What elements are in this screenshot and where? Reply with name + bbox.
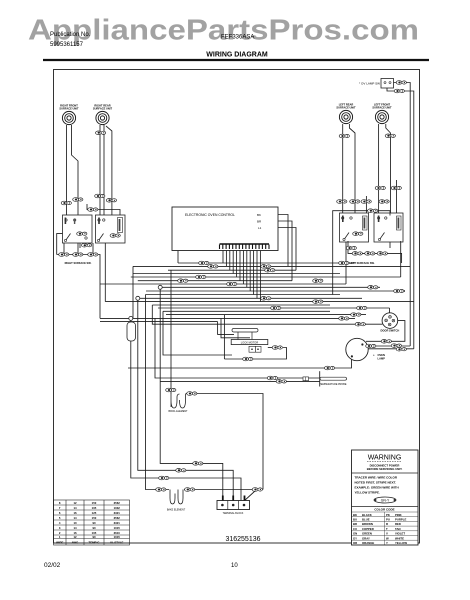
- svg-text:3321: 3321: [114, 521, 121, 525]
- svg-text:TEMPERATURE PROBE: TEMPERATURE PROBE: [320, 383, 347, 386]
- svg-text:T: T: [386, 527, 388, 531]
- wire: band b15: [163, 310, 330, 312]
- svg-text:GRAY: GRAY: [362, 536, 370, 540]
- wire: band b9: [146, 290, 405, 292]
- svg-text:105: 105: [92, 506, 97, 510]
- svg-text:Publication No.: Publication No.: [50, 32, 91, 38]
- connector J61 at (161,489.5): [156, 488, 166, 492]
- svg-text:FEF336ASA: FEF336ASA: [221, 35, 254, 41]
- wire: lock area feed 1: [218, 322, 234, 335]
- svg-text:VIOLET: VIOLET: [395, 532, 405, 536]
- wire: drop b2 to lower bus: [132, 266, 134, 318]
- wire: left long drop 2 (to terminal N): [138, 298, 233, 500]
- svg-text:3562: 3562: [114, 501, 121, 505]
- svg-text:W: W: [386, 536, 389, 540]
- connector J43 at (362,308): [357, 306, 367, 310]
- connector J18 at (355,201.5): [350, 200, 360, 204]
- svg-text:BAKE ELEMENT: BAKE ELEMENT: [167, 509, 186, 512]
- svg-text:BROIL ELEMENT: BROIL ELEMENT: [168, 410, 188, 413]
- wire: right switch 2 main drop: [104, 243, 106, 302]
- wire: left switch 2 drop a: [389, 242, 391, 248]
- svg-text:SURFACE UNIT: SURFACE UNIT: [372, 106, 392, 110]
- connector J59 at (181,470.3): [176, 469, 186, 473]
- connector J34 at (201,277): [196, 275, 206, 279]
- svg-text:PURPLE: PURPLE: [395, 518, 406, 522]
- svg-text:1032: 1032: [114, 506, 121, 510]
- connector J37 at (399,291): [394, 289, 404, 293]
- svg-text:AWG: AWG: [72, 541, 79, 545]
- wire: feed into terminal block right cell: [244, 491, 256, 502]
- svg-text:3562: 3562: [114, 516, 121, 520]
- wire: right rear surface unit left lead: [99, 125, 101, 215]
- wire: left long drop 3 (to terminal R): [131, 318, 241, 501]
- junction node B: [129, 316, 133, 320]
- connector J40 at (266,298.3): [261, 297, 271, 301]
- right surface switch 2: [96, 215, 126, 243]
- svg-text:14: 14: [73, 526, 77, 530]
- wire: left rear surface unit right lead: [349, 124, 355, 213]
- wire: lamp right conn lower: [366, 348, 414, 350]
- svg-text:LAMP: LAMP: [378, 356, 386, 360]
- svg-text:16: 16: [73, 511, 77, 515]
- svg-text:150: 150: [92, 516, 97, 520]
- terminal block TB1: [217, 496, 250, 516]
- wire: left long drop 1 (to terminal L): [160, 287, 223, 500]
- svg-text:WIRING DIAGRAM: WIRING DIAGRAM: [206, 52, 268, 59]
- svg-text:COLOR CODE: COLOR CODE: [374, 508, 394, 512]
- electronic oven control U1: [172, 207, 278, 251]
- connector J6 at (115.4,235.5): [110, 234, 120, 238]
- surface unit coil right front: [59, 104, 79, 125]
- wire: EOC terminal L1 lead: [266, 228, 296, 271]
- svg-text:* OV LAMP SW: * OV LAMP SW: [359, 82, 380, 86]
- svg-text:TEMP°C: TEMP°C: [89, 541, 100, 545]
- svg-text:BK: BK: [353, 513, 357, 517]
- wire: band b17: [100, 317, 355, 319]
- svg-text:ELECTRONIC OVEN CONTROL: ELECTRONIC OVEN CONTROL: [185, 213, 235, 217]
- connector J7 at (82,233.7): [77, 232, 87, 236]
- wire: EOC pin 1 drop: [222, 249, 224, 263]
- oven lamp DS1: [346, 338, 385, 360]
- svg-text:10: 10: [231, 563, 238, 569]
- wire: door switch top feed: [389, 308, 391, 316]
- svg-text:GREEN: GREEN: [362, 532, 372, 536]
- wire: right rear surface unit jog lead: [106, 126, 112, 215]
- warning box: [352, 450, 419, 545]
- svg-text:12: 12: [73, 501, 77, 505]
- svg-text:90: 90: [92, 535, 96, 539]
- wire: left rear unit jog to switch: [365, 196, 367, 213]
- connector J20 at (384.3,201.5): [379, 200, 389, 204]
- svg-text:14: 14: [73, 506, 77, 510]
- wire: left switch 2 drop b: [400, 241, 402, 277]
- left surface switch 1: [340, 213, 369, 242]
- wire: EOC pin 9 drop: [249, 249, 251, 291]
- connector J1 at (66.5,203): [61, 201, 71, 205]
- temperature probe J1: [303, 371, 347, 386]
- connector J32 at (266,266.4): [261, 265, 271, 269]
- connector J47 at (277.5,347.5): [272, 346, 282, 350]
- connector J53 at (371,346): [366, 344, 376, 348]
- wire: band b14: [158, 307, 390, 309]
- wire: band b18: [100, 321, 218, 323]
- svg-text:UL STYLE: UL STYLE: [110, 541, 124, 545]
- junction dot right: [403, 290, 405, 292]
- wire: right switch 1 bottom drop b: [77, 243, 79, 255]
- wire: band left drop a: [163, 311, 232, 355]
- wire: band b3: [168, 269, 296, 271]
- svg-text:PK: PK: [386, 513, 390, 517]
- connector J45 at (344,318.4): [339, 317, 349, 321]
- junction node A: [136, 296, 140, 300]
- svg-text:3321: 3321: [114, 511, 121, 515]
- connector J27 at (382.5,253.4): [377, 252, 387, 256]
- svg-text:LOCK MOTOR: LOCK MOTOR: [241, 341, 259, 345]
- wire: left front surface unit right lead: [386, 124, 391, 213]
- wire: band b7: [100, 283, 346, 285]
- svg-text:WARNING: WARNING: [368, 455, 402, 462]
- connector J52 at (386.5,341.3): [381, 340, 391, 344]
- wire: EOC pin 4 drop: [232, 249, 234, 274]
- wire: band b5: [131, 276, 401, 278]
- svg-text:125: 125: [92, 511, 97, 515]
- wire: EOC pin 3 drop: [229, 249, 231, 270]
- surface unit coil right rear: [93, 104, 113, 125]
- wire: feed into right switch 2: [87, 204, 120, 215]
- svg-text:PINK: PINK: [395, 513, 402, 517]
- svg-text:TERMINAL BLOCK: TERMINAL BLOCK: [223, 512, 244, 515]
- wire: EOC terminal BK lead: [266, 215, 288, 267]
- connector J12 at (93,254.5): [88, 253, 98, 257]
- wire: lamp right conn upper: [367, 345, 410, 347]
- connector J39 at (232,284): [227, 282, 237, 286]
- wire: right rear surface unit right lead: [103, 125, 105, 215]
- wire: lock area feed 2: [221, 318, 250, 337]
- svg-text:RIGHT SURFACE SW.: RIGHT SURFACE SW.: [65, 261, 92, 265]
- connector J19 at (366.4,201.5): [361, 200, 371, 204]
- svg-text:SURFACE UNIT: SURFACE UNIT: [93, 107, 113, 111]
- wire: EOC pin 10 drop: [253, 249, 255, 295]
- connector J54 at (396.5,345.6): [391, 344, 401, 348]
- title underline: [43, 59, 429, 61]
- wire: bake right run: [184, 489, 252, 491]
- svg-text:TAN: TAN: [395, 527, 401, 531]
- wire: band b1: [178, 262, 355, 264]
- wire: right front surface unit right lead: [72, 125, 79, 215]
- connector J46 at (360.5,324.2): [355, 322, 365, 326]
- connector J48 at (248,359): [243, 357, 253, 361]
- connector J16 at (396.5,188): [391, 186, 401, 190]
- connector J44 at (356,314.6): [351, 313, 361, 317]
- wire: right front surface unit left lead: [66, 125, 68, 215]
- connector J2 at (78,199.5): [73, 198, 83, 202]
- wire: EOC pin 2 drop: [225, 249, 227, 266]
- wire: EOC pin 11 drop: [256, 249, 258, 298]
- wire: door switch feed left: [152, 305, 382, 324]
- wire: left switch feed from EOC side: [333, 211, 390, 295]
- wire: band left drop b (broil feed): [170, 270, 172, 394]
- wire: oven lamp switch feed upper: [394, 83, 411, 347]
- svg-text:AppliancePartsPros.com: AppliancePartsPros.com: [28, 15, 419, 47]
- wire: band b4: [133, 273, 340, 275]
- connector J60 at (164,478): [159, 476, 169, 480]
- svg-text:90: 90: [92, 526, 96, 530]
- wire: left rear surface unit left lead: [342, 124, 344, 213]
- connector J50 at (281.5,381.4): [276, 380, 286, 384]
- wire: band b10: [146, 294, 341, 296]
- connector J31 at (344,263): [339, 261, 349, 265]
- wire: probe upper: [155, 318, 320, 378]
- oven lamp switch S5: [359, 79, 393, 89]
- wire: right switch 1 left loop: [57, 234, 63, 255]
- connector J41 at (318,301.6): [313, 300, 323, 304]
- connector J9 at (86.8,245.2): [82, 243, 92, 247]
- svg-text:R: R: [386, 522, 388, 526]
- wire: EOC terminal BR lead: [266, 221, 292, 281]
- connector J23 at (397.5,91): [394, 89, 404, 93]
- svg-text:1015: 1015: [114, 535, 121, 539]
- svg-text:BU: BU: [353, 518, 357, 522]
- connector J21 at (372.9,210.7): [368, 209, 378, 213]
- surface unit coil left front: [372, 103, 392, 124]
- wire: band b8: [160, 286, 380, 288]
- wire: left switch chain lower: [348, 241, 402, 263]
- wire: lock area feed 3: [223, 315, 225, 359]
- diagram border: [54, 70, 420, 544]
- svg-text:BEFORE SERVICING UNIT.: BEFORE SERVICING UNIT.: [367, 467, 403, 471]
- svg-text:WHITE: WHITE: [395, 536, 404, 540]
- wire: oven lamp switch feed lower: [387, 88, 414, 349]
- connector J24 at (351.5,248): [346, 246, 356, 250]
- connector J29 at (204,263): [199, 261, 209, 265]
- connector J49 at (272.6,378): [267, 376, 277, 380]
- connector J33 at (270,270.2): [265, 268, 275, 272]
- connector J28 at (358,233.7): [353, 232, 363, 236]
- wire: lamp return line: [128, 357, 352, 368]
- wire: probe lower: [160, 380, 320, 382]
- quick-disconnect connectors: [59, 81, 407, 492]
- svg-text:YELLOW STRIPE.: YELLOW STRIPE.: [355, 491, 381, 495]
- wire: left long drop 4 (bake feed): [146, 295, 170, 490]
- wire: right switch lower chain: [57, 255, 100, 319]
- svg-text:TRACER WIRE: WIRE COLOR: TRACER WIRE: WIRE COLOR: [355, 476, 398, 480]
- svg-text:COPPER: COPPER: [362, 527, 374, 531]
- svg-text:SURFACE UNIT: SURFACE UNIT: [336, 106, 356, 110]
- svg-text:02/02: 02/02: [44, 562, 61, 569]
- svg-text:V: V: [386, 532, 388, 536]
- connector J36 at (318,280.7): [313, 279, 323, 283]
- broil element E1: [168, 394, 188, 413]
- junction node C: [158, 285, 162, 289]
- connector J63 at (257.5,489.5): [252, 488, 262, 492]
- svg-text:BROWN: BROWN: [362, 522, 373, 526]
- svg-text:BLACK: BLACK: [362, 513, 372, 517]
- left surface switch 2: [374, 213, 403, 242]
- wire: band b6: [138, 280, 292, 282]
- connector J3 at (100,196): [95, 194, 105, 198]
- wire gauge table: [54, 500, 130, 545]
- connector J55 at (401.5,349.2): [396, 347, 406, 351]
- EOC pin header comb: [220, 244, 270, 249]
- connector J14 at (390.5,135.8): [385, 134, 395, 138]
- connector J42 at (276,308): [271, 306, 281, 310]
- wire: EOC pin 12 drop: [259, 249, 261, 302]
- wire: left front unit jog lead: [396, 180, 398, 213]
- connector J51 at (329.8,368): [325, 366, 335, 370]
- bake element E2: [167, 490, 186, 512]
- wire: band b2: [133, 265, 410, 267]
- svg-text:DOOR SWITCH: DOOR SWITCH: [381, 329, 400, 333]
- wire: band b16: [166, 314, 366, 316]
- svg-text:Y: Y: [386, 541, 388, 545]
- wire: door switch right return: [366, 321, 405, 342]
- wire: left front surface unit left lead: [378, 124, 380, 213]
- connector J8 at (100.8,132.8): [96, 131, 106, 135]
- connector J57 at (192,393.5): [187, 392, 197, 396]
- svg-text:5995361157: 5995361157: [50, 42, 84, 48]
- svg-text:WIRE: WIRE: [56, 541, 63, 545]
- svg-text:316255136: 316255136: [225, 536, 260, 543]
- wire: EOC pin 8 drop: [246, 249, 248, 287]
- svg-text:12: 12: [73, 535, 77, 539]
- connector J58 at (198,463.4): [193, 462, 203, 466]
- connector J25 at (357.5,253.4): [352, 252, 362, 256]
- connector J17 at (342,201.5): [337, 200, 347, 204]
- oven sensor body: [127, 322, 136, 341]
- svg-text:NOTED FIRST, STRIPE NEXT.: NOTED FIRST, STRIPE NEXT.: [355, 481, 397, 485]
- wire: broil right run: [186, 394, 264, 490]
- wire: EOC left stub: [177, 251, 179, 263]
- svg-text:GN: GN: [353, 532, 357, 536]
- wire: lock motor return: [224, 348, 286, 360]
- svg-text:YELLOW: YELLOW: [395, 541, 407, 545]
- wire: band b11: [138, 297, 362, 299]
- svg-text:LEFT SURFACE SW.: LEFT SURFACE SW.: [349, 261, 374, 265]
- connector J10 at (64,254.5): [59, 253, 69, 257]
- wire: right switch 1 bottom connector stub: [79, 243, 81, 248]
- svg-text:BR: BR: [353, 522, 357, 526]
- wire: band b12: [105, 301, 414, 303]
- door switch S6: [381, 313, 400, 333]
- wire: EOC pin 7 drop: [242, 249, 244, 284]
- svg-text:RED: RED: [395, 522, 401, 526]
- svg-text:CU: CU: [353, 527, 357, 531]
- svg-text:14: 14: [73, 516, 77, 520]
- svg-text:SURFACE UNIT: SURFACE UNIT: [59, 107, 79, 111]
- wire: right switch 2 bottom drop: [92, 243, 94, 255]
- connector J62 at (189.8,489.5): [185, 488, 195, 492]
- svg-text:10: 10: [73, 521, 77, 525]
- connector J5 at (93,209.5): [88, 208, 98, 212]
- lock motor M1: [231, 329, 268, 353]
- svg-text:90: 90: [92, 521, 96, 525]
- surface unit coil left rear: [336, 103, 356, 124]
- connector J30 at (213,266.4): [208, 265, 218, 269]
- connector J11 at (78,254.5): [73, 253, 83, 257]
- svg-text:L1: L1: [258, 226, 262, 230]
- connector J13 at (344.5,136): [339, 134, 349, 138]
- right surface switch 1: [63, 215, 93, 243]
- wire: EOC pin 6 drop: [239, 249, 241, 281]
- connector J35 at (373,287.3): [368, 286, 378, 290]
- svg-text:OR: OR: [353, 541, 357, 545]
- wire: EOC pin 5 drop: [236, 249, 238, 277]
- svg-text:BLUE: BLUE: [362, 518, 370, 522]
- connector J26 at (370,253.4): [365, 252, 375, 256]
- svg-text:ORANGE: ORANGE: [362, 541, 374, 545]
- wire: left switch 1 drop to band: [345, 242, 347, 284]
- connector J4 at (111.6,200.3): [106, 199, 116, 203]
- svg-text:GN-Y: GN-Y: [381, 499, 390, 503]
- svg-text:GY: GY: [353, 536, 357, 540]
- wire: right switch 1 bottom drop a: [63, 243, 65, 255]
- svg-text:1015: 1015: [114, 526, 121, 530]
- svg-text:BK: BK: [257, 213, 261, 217]
- svg-text:EXAMPLE: GREEN WIRE WITH: EXAMPLE: GREEN WIRE WITH: [355, 486, 399, 490]
- svg-text:PU: PU: [386, 518, 390, 522]
- connector J38 at (183,280.7): [178, 279, 188, 283]
- svg-text:150: 150: [92, 501, 97, 505]
- wire: band b13: [152, 304, 330, 306]
- connector J15 at (380.5,188): [375, 186, 385, 190]
- connector J56 at (171,390): [166, 388, 176, 392]
- wire: lock motor to connector: [268, 347, 272, 349]
- connector J22 at (400.5,82.5): [396, 81, 406, 85]
